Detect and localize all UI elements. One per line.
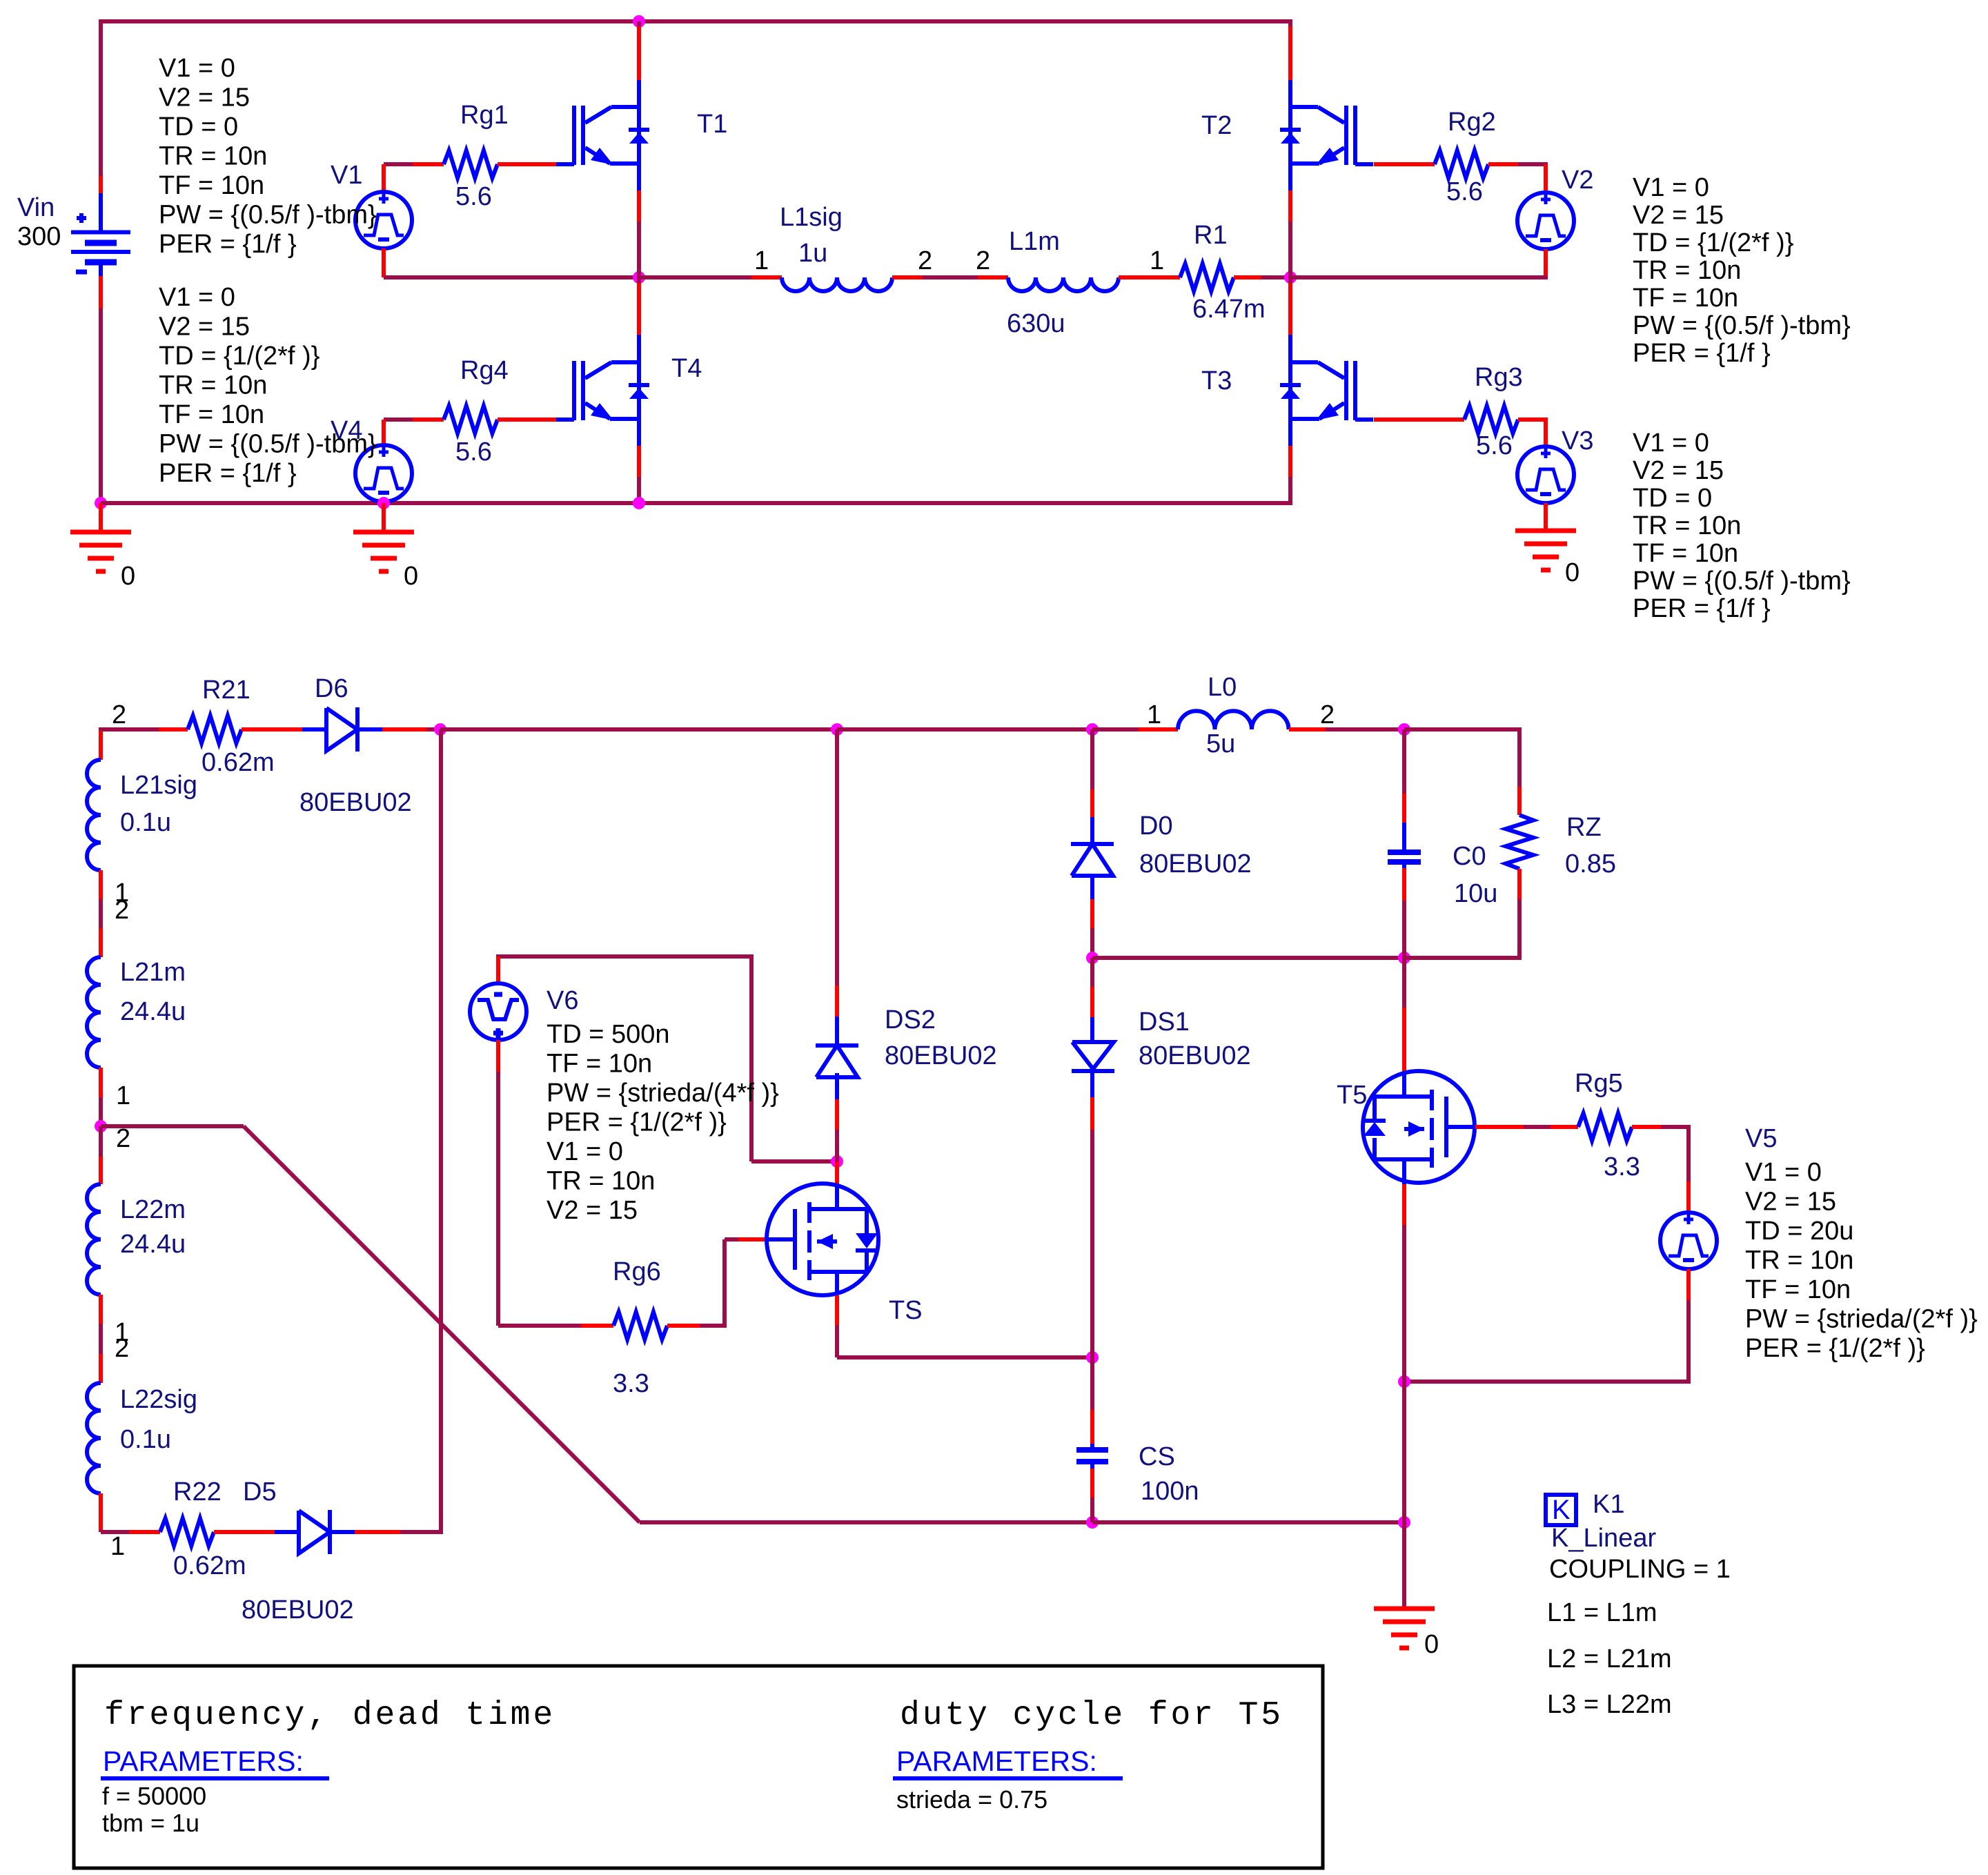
- value R21 0.62m: [201, 748, 275, 777]
- svg-text:80EBU02: 80EBU02: [299, 788, 412, 817]
- inductor L22sig: [87, 1383, 101, 1493]
- node TS source junction: [1086, 1351, 1099, 1364]
- svg-text:R22: R22: [173, 1478, 222, 1506]
- label Rg3: [1475, 363, 1523, 392]
- wire DS2 node to TS drain: [835, 1161, 839, 1184]
- value L3 = L22m: [1547, 1690, 1672, 1719]
- wire RZ bottom lead: [1517, 869, 1522, 899]
- node output rail left junction: [1086, 952, 1099, 964]
- pin 1 L1m: [1150, 246, 1164, 275]
- svg-text:L1 = L1m: L1 = L1m: [1547, 1598, 1657, 1627]
- label D0: [1139, 812, 1173, 841]
- svg-text:Vin: Vin: [17, 193, 55, 222]
- svg-text:0.85: 0.85: [1565, 850, 1616, 878]
- svg-text:D5: D5: [243, 1478, 277, 1506]
- capacitor C0: [1388, 852, 1421, 862]
- svg-text:V6: V6: [547, 986, 578, 1015]
- svg-text:D0: D0: [1139, 812, 1173, 841]
- pin 1 L21m bottom: [116, 1081, 130, 1110]
- svg-text:80EBU02: 80EBU02: [1139, 1041, 1251, 1070]
- label RZ: [1566, 813, 1602, 842]
- value f = 50000: [102, 1782, 206, 1810]
- node DS2 bottom junction: [831, 1155, 843, 1168]
- label L22sig: [120, 1385, 197, 1414]
- wire DS2 top: [835, 729, 839, 1047]
- svg-text:V3: V3: [1562, 426, 1593, 455]
- wire top rail: [101, 19, 1290, 176]
- svg-text:V1 = 0: V1 = 0: [1633, 429, 1709, 458]
- V3 parameter text: [1633, 429, 1851, 623]
- label ground 0 V4: [404, 562, 418, 591]
- diode T3 freewheel: [1280, 385, 1301, 399]
- pin 1 L1sig: [754, 246, 769, 275]
- label L21m: [120, 958, 186, 987]
- svg-text:10u: 10u: [1454, 879, 1497, 908]
- wire tap to L22m: [99, 1126, 103, 1184]
- wire RZ top lead: [1517, 787, 1522, 815]
- wire D6 to node: [357, 727, 440, 732]
- label Rg4: [460, 356, 509, 385]
- svg-text:PW = {(0.5/f )-tbm}: PW = {(0.5/f )-tbm}: [1633, 567, 1851, 596]
- label ground 0 V3: [1565, 558, 1579, 587]
- svg-text:2: 2: [1320, 700, 1335, 729]
- label V6: [547, 986, 578, 1015]
- svg-text:PW = {(0.5/f )-tbm}: PW = {(0.5/f )-tbm}: [159, 430, 377, 459]
- label V3: [1562, 426, 1593, 455]
- label T1: [697, 110, 727, 139]
- wire D0 top lead: [1090, 729, 1094, 845]
- node D0 top junction: [1086, 723, 1099, 736]
- svg-text:PW = {(0.5/f )-tbm}: PW = {(0.5/f )-tbm}: [1633, 311, 1851, 340]
- svg-text:TF = 10n: TF = 10n: [159, 171, 264, 200]
- transistor TS: [767, 1184, 878, 1295]
- node TS drain junction: [831, 723, 843, 736]
- label L0: [1208, 673, 1237, 702]
- svg-text:DS1: DS1: [1139, 1008, 1190, 1037]
- diode T1 freewheel: [629, 130, 649, 144]
- svg-text:K1: K1: [1593, 1490, 1624, 1519]
- wire DS1 bottom lead: [1090, 1071, 1094, 1357]
- label ground 0 output: [1424, 1630, 1439, 1659]
- label V1: [331, 161, 362, 190]
- svg-text:PW = {(0.5/f )-tbm}: PW = {(0.5/f )-tbm}: [159, 201, 377, 230]
- wire C0 top lead: [1402, 729, 1406, 852]
- svg-text:TD = {1/(2*f )}: TD = {1/(2*f )}: [1633, 228, 1793, 257]
- svg-text:5.6: 5.6: [1476, 431, 1513, 460]
- node ground column junction: [1398, 1516, 1410, 1529]
- svg-text:f = 50000: f = 50000: [102, 1782, 206, 1810]
- resistor Rg5: [1578, 1113, 1632, 1141]
- capacitor CS: [1076, 1450, 1108, 1462]
- resistor Rg6: [613, 1312, 667, 1339]
- svg-text:V2 = 15: V2 = 15: [159, 84, 250, 112]
- svg-text:strieda = 0.75: strieda = 0.75: [896, 1785, 1047, 1814]
- label Vin: [17, 193, 55, 222]
- pin 1 L0: [1147, 700, 1161, 729]
- value R22 0.62m: [173, 1551, 246, 1580]
- label K1: [1593, 1490, 1624, 1519]
- inductor L1sig: [782, 277, 892, 291]
- node V4 bottom junction: [377, 497, 390, 509]
- svg-text:L0: L0: [1208, 673, 1237, 702]
- parameters box frame: [74, 1666, 1323, 1868]
- svg-text:1: 1: [116, 1081, 130, 1110]
- svg-text:tbm = 1u: tbm = 1u: [102, 1809, 199, 1837]
- svg-text:V1 = 0: V1 = 0: [159, 283, 235, 312]
- resistor RZ: [1506, 815, 1533, 869]
- svg-text:5u: 5u: [1206, 729, 1235, 758]
- svg-text:0.62m: 0.62m: [201, 748, 275, 777]
- wire source column to ground: [1402, 1382, 1406, 1609]
- wire V6 loop to DS2 node: [751, 1159, 837, 1164]
- diode D6: [326, 707, 357, 752]
- svg-text:V1: V1: [331, 161, 362, 190]
- svg-text:V5: V5: [1745, 1124, 1777, 1153]
- wire L1sig to L1m: [892, 275, 1008, 279]
- pin 2 L1sig: [918, 246, 932, 275]
- svg-text:Rg5: Rg5: [1575, 1069, 1623, 1098]
- pin 1 L21sig bottom: [115, 878, 129, 907]
- wire secondary top to D0: [837, 727, 1092, 732]
- value C0 10u: [1454, 879, 1497, 908]
- svg-text:1: 1: [110, 1532, 125, 1561]
- value Rg3 5.6: [1476, 431, 1513, 460]
- wire T5 drain: [1402, 958, 1406, 1096]
- svg-text:3.3: 3.3: [1604, 1152, 1640, 1181]
- wire L22m to L22sig: [99, 1295, 103, 1383]
- wire V6 top: [498, 954, 754, 956]
- wire DS1 top lead: [1090, 958, 1094, 1043]
- pin 2 L1m: [976, 246, 990, 275]
- value L21m 24.4u: [120, 997, 186, 1026]
- label C0: [1453, 842, 1486, 871]
- wire V2 return: [1290, 275, 1548, 279]
- node V5 return junction: [1398, 1375, 1410, 1388]
- value L21sig 0.1u: [120, 808, 171, 837]
- wire L22sig to R22: [101, 1530, 160, 1532]
- svg-text:V2: V2: [1562, 166, 1593, 195]
- node CS bottom junction: [1086, 1516, 1099, 1529]
- svg-text:T1: T1: [697, 110, 727, 139]
- svg-text:Rg2: Rg2: [1448, 108, 1496, 137]
- wire T4 collector stem: [637, 277, 641, 364]
- svg-text:TF = 10n: TF = 10n: [1633, 284, 1738, 313]
- transistor T3: [1290, 361, 1373, 420]
- svg-text:C0: C0: [1453, 842, 1486, 871]
- value strieda = 0.75: [896, 1785, 1047, 1814]
- inductor L21m: [87, 957, 101, 1068]
- value Vin 300: [17, 222, 61, 251]
- svg-text:TR = 10n: TR = 10n: [1745, 1246, 1853, 1275]
- svg-text:L3 = L22m: L3 = L22m: [1547, 1690, 1672, 1719]
- svg-text:PER = {1/f }: PER = {1/f }: [1633, 594, 1771, 623]
- svg-text:RZ: RZ: [1566, 813, 1602, 842]
- coupling K1 box: [1546, 1495, 1576, 1525]
- svg-text:frequency, dead time: frequency, dead time: [104, 1697, 555, 1734]
- svg-text:Rg6: Rg6: [613, 1257, 661, 1286]
- wire V4 top to Rg4: [384, 418, 444, 422]
- svg-text:TS: TS: [889, 1296, 923, 1325]
- source V4: [355, 420, 412, 503]
- svg-text:T5: T5: [1337, 1081, 1367, 1110]
- svg-text:PW = {strieda/(2*f )}: PW = {strieda/(2*f )}: [1745, 1305, 1978, 1334]
- svg-text:TD = {1/(2*f )}: TD = {1/(2*f )}: [159, 342, 319, 371]
- svg-text:TR = 10n: TR = 10n: [159, 142, 267, 171]
- svg-text:duty cycle for T5: duty cycle for T5: [900, 1697, 1283, 1734]
- node left-bottom junction: [95, 497, 107, 509]
- label T3: [1201, 366, 1232, 395]
- value D6 80EBU02: [299, 788, 412, 817]
- svg-text:PER = {1/(2*f )}: PER = {1/(2*f )}: [547, 1108, 727, 1137]
- wire T2 emitter stem: [1288, 164, 1292, 277]
- svg-text:630u: 630u: [1007, 309, 1065, 338]
- label L1sig: [780, 203, 843, 232]
- value L1m 630u: [1007, 309, 1065, 338]
- svg-text:PER = {1/(2*f )}: PER = {1/(2*f )}: [1745, 1334, 1925, 1363]
- svg-text:Rg3: Rg3: [1475, 363, 1523, 392]
- wire output rail: [1092, 956, 1404, 960]
- value L22sig 0.1u: [120, 1425, 171, 1454]
- ground 0 output: [1374, 1609, 1435, 1648]
- value Rg4 5.6: [455, 438, 492, 467]
- label TS: [889, 1296, 923, 1325]
- svg-text:T3: T3: [1201, 366, 1232, 395]
- label V4: [331, 416, 362, 445]
- wire tap to CS node: [640, 1520, 1092, 1524]
- svg-text:V2 = 15: V2 = 15: [1633, 201, 1724, 230]
- source V2: [1517, 164, 1574, 277]
- wire CS node to ground column: [1092, 1520, 1404, 1524]
- wire T1 collector stem: [637, 21, 641, 108]
- svg-text:TD = 0: TD = 0: [159, 112, 238, 141]
- label D6: [315, 674, 348, 703]
- svg-text:80EBU02: 80EBU02: [885, 1041, 997, 1070]
- wire T5 source: [1402, 1158, 1406, 1382]
- svg-text:1u: 1u: [798, 239, 827, 268]
- svg-text:Rg1: Rg1: [460, 101, 509, 130]
- wire CS top lead: [1090, 1357, 1094, 1450]
- svg-text:D6: D6: [315, 674, 348, 703]
- resistor R1: [1180, 264, 1234, 291]
- label ground 0 left: [121, 562, 135, 591]
- svg-text:PARAMETERS:: PARAMETERS:: [103, 1745, 304, 1777]
- label DS1: [1139, 1008, 1190, 1037]
- value L1sig 1u: [798, 239, 827, 268]
- svg-text:PW = {strieda/(4*f )}: PW = {strieda/(4*f )}: [547, 1079, 779, 1108]
- wire Rg2 to V2: [1488, 162, 1548, 166]
- wire Rg1 to T1 gate: [498, 162, 556, 166]
- inductor L0: [1178, 711, 1289, 729]
- label Rg1: [460, 101, 509, 130]
- transistor T2: [1290, 106, 1373, 165]
- label T5: [1337, 1081, 1367, 1110]
- svg-text:1: 1: [754, 246, 769, 275]
- svg-text:0.1u: 0.1u: [120, 808, 171, 837]
- text duty cycle for T5: [900, 1697, 1283, 1734]
- label DS2: [885, 1005, 936, 1034]
- svg-text:80EBU02: 80EBU02: [1139, 850, 1252, 878]
- text frequency dead time: [104, 1697, 555, 1734]
- svg-text:2: 2: [116, 1124, 130, 1153]
- node C0 top junction: [1398, 723, 1410, 736]
- wire L21sig top stub: [99, 731, 103, 760]
- value COUPLING: [1549, 1555, 1731, 1584]
- svg-text:0: 0: [1565, 558, 1579, 587]
- wire L0 to C0 node: [1289, 727, 1404, 732]
- svg-text:TD = 500n: TD = 500n: [547, 1020, 670, 1049]
- svg-text:V1 = 0: V1 = 0: [1745, 1158, 1822, 1187]
- svg-text:PARAMETERS:: PARAMETERS:: [896, 1745, 1097, 1777]
- diode DS2: [816, 1046, 858, 1077]
- label K_Linear: [1551, 1524, 1656, 1553]
- wire secondary top left: [101, 727, 188, 731]
- wire R21 to D6: [242, 727, 326, 732]
- wire T5 gate to Rg5: [1475, 1125, 1578, 1129]
- inductor L21sig: [87, 760, 101, 870]
- value CS 100n: [1141, 1477, 1199, 1506]
- svg-text:2: 2: [976, 246, 990, 275]
- value tbm = 1u: [102, 1809, 199, 1837]
- wire tap horizontal: [101, 1124, 244, 1128]
- pin 1 L22sig bottom: [110, 1532, 125, 1561]
- node top-T1 junction: [633, 15, 645, 28]
- svg-text:5.6: 5.6: [455, 182, 492, 211]
- svg-text:24.4u: 24.4u: [120, 1230, 186, 1259]
- wire Rg6 to TS gate: [667, 1239, 767, 1326]
- node D6 output junction: [434, 723, 446, 736]
- node output rail right junction: [1398, 952, 1410, 964]
- wire secondary top middle: [440, 727, 837, 732]
- wire CS bottom lead: [1090, 1462, 1094, 1522]
- wire D0 bottom lead: [1090, 876, 1094, 958]
- label L22m: [120, 1195, 186, 1224]
- svg-text:0.1u: 0.1u: [120, 1425, 171, 1454]
- wire bottom rail: [101, 501, 1290, 505]
- svg-text:R21: R21: [202, 676, 250, 705]
- svg-text:2: 2: [115, 896, 129, 925]
- svg-text:V1 = 0: V1 = 0: [1633, 173, 1709, 202]
- wire D5 to vertical: [330, 1530, 443, 1534]
- V6 parameter text: [547, 1020, 779, 1225]
- pin 2 L21sig top: [112, 700, 126, 729]
- diode T4 freewheel: [629, 385, 649, 399]
- value L1 = L1m: [1547, 1598, 1657, 1627]
- svg-text:0.62m: 0.62m: [173, 1551, 246, 1580]
- svg-text:80EBU02: 80EBU02: [242, 1596, 354, 1624]
- label D5: [243, 1478, 277, 1506]
- node right rail mid junction: [1284, 271, 1297, 284]
- svg-text:TR = 10n: TR = 10n: [547, 1167, 655, 1196]
- resistor Rg3: [1464, 406, 1518, 433]
- svg-text:0: 0: [121, 562, 135, 591]
- svg-text:5.6: 5.6: [455, 438, 492, 467]
- pin 2 L22sig top: [115, 1334, 129, 1363]
- svg-text:1: 1: [1150, 246, 1164, 275]
- wire T1 emitter stem: [637, 164, 641, 277]
- svg-text:TD = 20u: TD = 20u: [1745, 1217, 1853, 1246]
- svg-text:Rg4: Rg4: [460, 356, 509, 385]
- diode T2 freewheel: [1280, 130, 1301, 144]
- svg-text:TD = 0: TD = 0: [1633, 484, 1712, 513]
- value RZ 0.85: [1565, 850, 1616, 878]
- svg-text:L21sig: L21sig: [120, 771, 197, 800]
- label T2: [1201, 111, 1232, 140]
- value Rg1 5.6: [455, 182, 492, 211]
- label Rg6: [613, 1257, 661, 1286]
- resistor Rg4: [444, 406, 498, 433]
- wire T2 collector stem: [1288, 19, 1292, 108]
- svg-text:K_Linear: K_Linear: [1551, 1524, 1656, 1553]
- svg-text:2: 2: [112, 700, 126, 729]
- resistor Rg1: [444, 150, 498, 178]
- svg-text:TF = 10n: TF = 10n: [159, 400, 264, 429]
- resistor Rg2: [1435, 150, 1488, 178]
- wire V6 left vertical: [496, 1072, 500, 1326]
- svg-text:PER = {1/f }: PER = {1/f }: [159, 459, 297, 488]
- value D5 80EBU02: [242, 1596, 354, 1624]
- label Rg5: [1575, 1069, 1623, 1098]
- svg-text:L22m: L22m: [120, 1195, 186, 1224]
- svg-text:TF = 10n: TF = 10n: [1633, 539, 1738, 568]
- svg-text:TF = 10n: TF = 10n: [547, 1050, 652, 1079]
- label R22: [173, 1478, 222, 1506]
- source Vin: [71, 176, 130, 308]
- inductor L1m: [1008, 277, 1119, 291]
- wire T3 emitter stem: [1288, 420, 1292, 505]
- wire C0 bottom lead: [1402, 862, 1406, 958]
- label L21sig: [120, 771, 197, 800]
- svg-text:V1 = 0: V1 = 0: [159, 54, 235, 83]
- svg-text:L2 = L21m: L2 = L21m: [1547, 1645, 1672, 1673]
- svg-text:TR = 10n: TR = 10n: [159, 371, 267, 400]
- svg-text:2: 2: [115, 1334, 129, 1363]
- value L0 5u: [1206, 729, 1235, 758]
- svg-text:PER = {1/f }: PER = {1/f }: [1633, 339, 1771, 368]
- wire T2 gate to Rg2: [1374, 162, 1435, 166]
- ground 0 V3: [1515, 531, 1576, 570]
- inductor L22m: [87, 1184, 101, 1295]
- svg-text:0: 0: [1424, 1630, 1439, 1659]
- label T4: [671, 354, 702, 383]
- value Rg2 5.6: [1446, 177, 1483, 206]
- wire D5 vertical riser: [439, 729, 443, 1534]
- parameters label 1: [101, 1745, 329, 1778]
- svg-text:TR = 10n: TR = 10n: [1633, 256, 1741, 285]
- ground 0 left: [70, 503, 131, 571]
- node T4 bottom junction: [633, 497, 645, 509]
- wire bridge mid left: [639, 275, 782, 279]
- label V5: [1745, 1124, 1777, 1153]
- wire DS2 bottom: [835, 1073, 839, 1161]
- wire L21sig to L21m: [99, 870, 103, 957]
- svg-text:V2 = 15: V2 = 15: [547, 1196, 638, 1225]
- svg-text:0: 0: [404, 562, 418, 591]
- svg-text:T2: T2: [1201, 111, 1232, 140]
- svg-text:L21m: L21m: [120, 958, 186, 987]
- value DS2 80EBU02: [885, 1041, 997, 1070]
- source V3: [1517, 420, 1574, 531]
- svg-text:L22sig: L22sig: [120, 1385, 197, 1414]
- value D0 80EBU02: [1139, 850, 1252, 878]
- wire Rg5 to V5: [1632, 1125, 1691, 1129]
- wire Rg4 to T4 gate: [498, 418, 556, 422]
- V1 parameter text: [159, 54, 377, 259]
- wire L22sig bottom stub: [99, 1493, 103, 1532]
- value Rg6 3.3: [613, 1369, 649, 1398]
- label Rg2: [1448, 108, 1496, 137]
- V2 parameter text: [1633, 173, 1851, 368]
- pin 2 L0: [1320, 700, 1335, 729]
